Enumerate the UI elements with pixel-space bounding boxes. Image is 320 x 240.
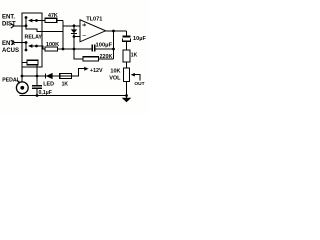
wire R2 to capacitor C1	[58, 48, 93, 50]
resistor R5 1K	[60, 74, 72, 88]
svg-text:+12V: +12V	[90, 68, 103, 74]
diode D1	[71, 24, 77, 37]
ground bus wire	[20, 95, 127, 97]
wire R4 to potentiometer	[126, 62, 128, 68]
supply +12V arrow	[84, 67, 103, 74]
wire R3 to output vertical	[98, 58, 113, 60]
wire J1 to relay contact	[14, 25, 26, 27]
wire node A to op-amp plus input	[63, 25, 80, 27]
wire S1a lower contact step to node A	[26, 26, 63, 32]
junction node B on summing wire	[73, 48, 76, 51]
wire node B down to R3	[74, 49, 83, 59]
junction cap coil node	[36, 75, 39, 78]
junction pedal node	[21, 75, 24, 78]
svg-text:47K: 47K	[48, 13, 58, 19]
junction node A on summing wire	[62, 48, 65, 51]
resistor R2 100K	[45, 42, 59, 51]
svg-text:VOL: VOL	[109, 75, 121, 81]
resistor R3 220K	[83, 54, 112, 61]
wire S1b wiper to R2 jog	[37, 46, 46, 49]
input jack J1 ENT.DIST	[2, 15, 16, 29]
wire node A vertical	[62, 21, 64, 50]
wire C1 to output node vertical	[95, 48, 114, 50]
potentiometer P1 10K VOL	[109, 68, 140, 82]
svg-text:10K: 10K	[110, 69, 120, 75]
svg-text:LED: LED	[43, 81, 54, 87]
wire pot to ground	[126, 82, 128, 99]
svg-text:OUT: OUT	[134, 81, 144, 87]
svg-text:0,1µF: 0,1µF	[39, 90, 52, 96]
wire relay box to pedal node	[21, 67, 23, 82]
pedal jack J3	[2, 78, 28, 94]
junction on output feedback vertical	[112, 48, 115, 51]
ground symbol	[122, 98, 132, 103]
svg-text:TL071: TL071	[86, 17, 102, 23]
wire output feedback vertical	[113, 31, 115, 59]
wire minus input down to node B	[73, 37, 75, 50]
wire S1a wiper to R1	[37, 20, 46, 22]
capacitor C1 100uF	[92, 42, 112, 51]
relay switch S1a fixed contacts	[25, 16, 28, 27]
resistor R1 47K	[45, 13, 58, 23]
svg-text:ACUS: ACUS	[2, 48, 19, 54]
relay switch S1b wiper arrow	[28, 44, 38, 48]
wire op-amp output	[106, 30, 127, 32]
svg-text:100µF: 100µF	[96, 42, 113, 48]
svg-text:100K: 100K	[46, 42, 59, 48]
junction ground bus node	[125, 94, 128, 97]
resistor R4 1K	[123, 50, 138, 62]
svg-text:10µF: 10µF	[133, 36, 146, 42]
op-amp U1 TL071	[80, 17, 106, 42]
relay switch S1a wiper arrow	[28, 19, 38, 23]
relay coil K1	[22, 60, 38, 76]
svg-text:1K: 1K	[131, 53, 138, 59]
svg-text:1K: 1K	[62, 81, 69, 87]
wire to op-amp minus input	[74, 36, 80, 38]
LED D2	[43, 73, 54, 88]
relay RL1 enclosure box	[22, 13, 42, 67]
svg-text:RELAY: RELAY	[25, 35, 43, 41]
wire R1 to node A jog	[57, 20, 63, 22]
input jack J2 ENT.ACUS	[2, 40, 19, 54]
junction output node	[112, 30, 115, 33]
svg-text:ENT.: ENT.	[2, 15, 15, 21]
capacitor C2 10uF electrolytic	[123, 31, 147, 50]
wire J2 to relay contact	[15, 42, 27, 44]
relay switch S1b fixed contacts	[25, 41, 28, 51]
wire R5 to supply	[72, 69, 85, 76]
capacitor C3 0.1uF	[32, 76, 52, 97]
wire pedal line	[22, 75, 79, 77]
